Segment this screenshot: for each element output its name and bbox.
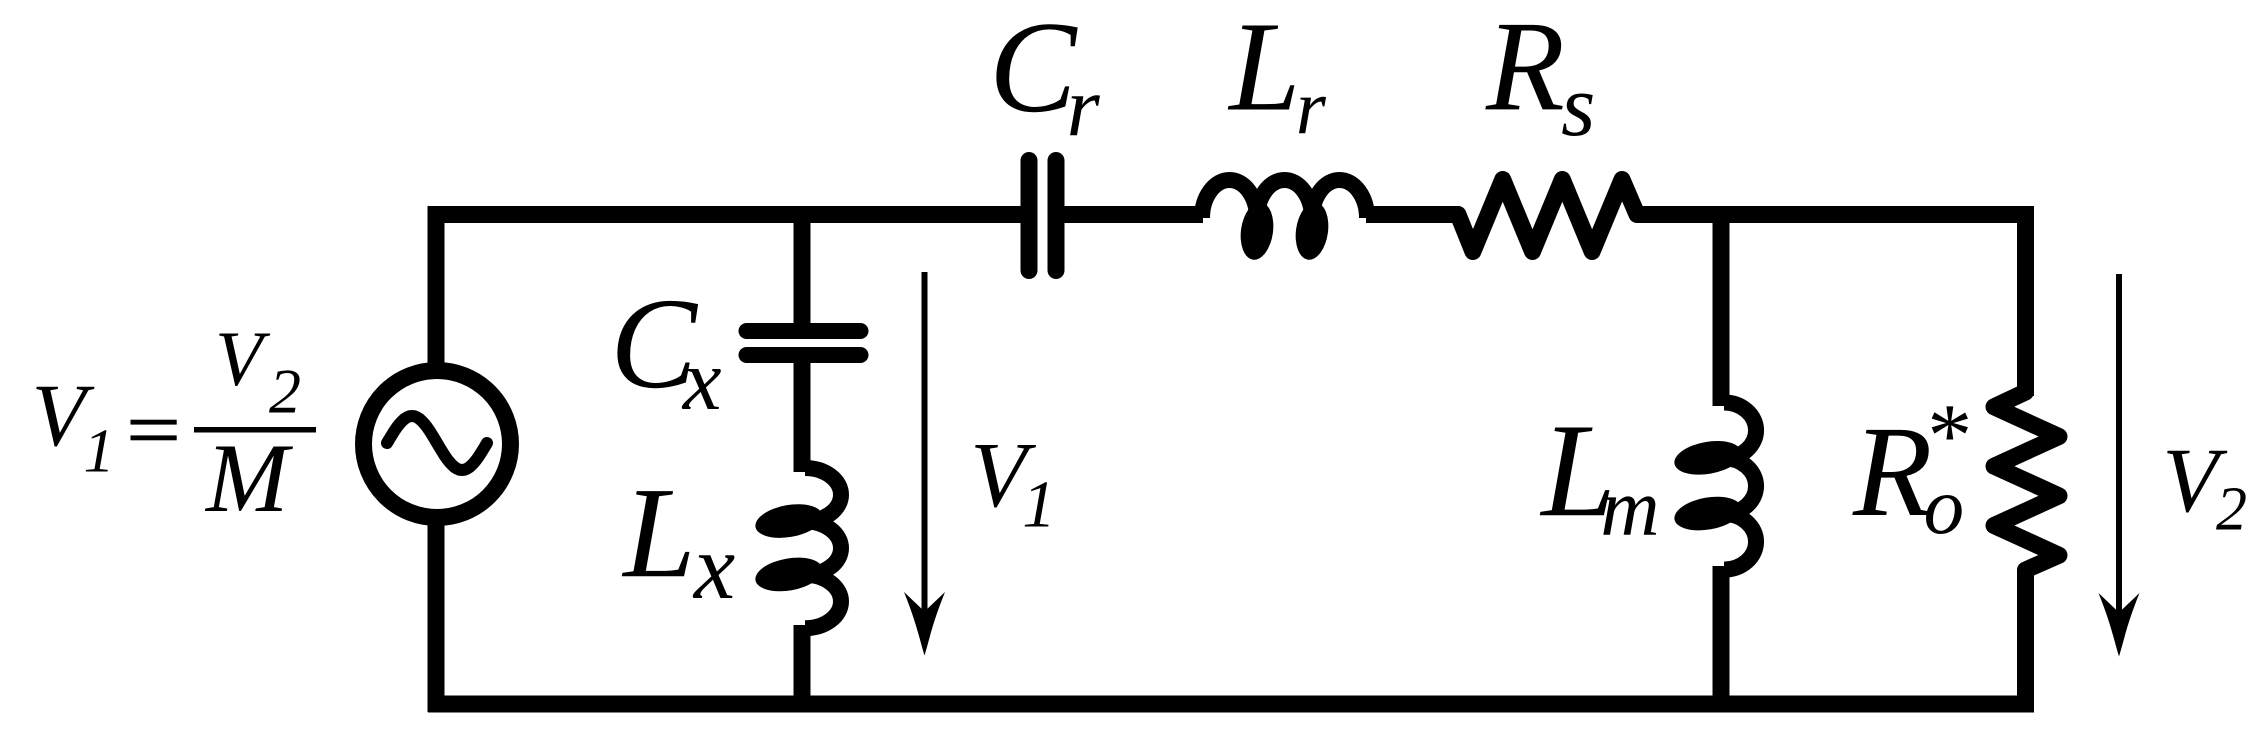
capacitor Cr plate 2 xyxy=(1048,161,1065,271)
capacitor Cx plate 1 xyxy=(747,323,861,339)
label Lm xyxy=(1539,396,1659,553)
label Rs xyxy=(1485,0,1595,155)
label formula V1 = V2/M xyxy=(32,315,316,533)
wire Lm bottom xyxy=(1713,566,1730,704)
arrow V1 head xyxy=(904,592,945,656)
wire right branch bottom xyxy=(2017,570,2034,704)
svg-text:r: r xyxy=(1067,60,1101,154)
arrow V2 line xyxy=(2116,274,2122,617)
svg-text:o: o xyxy=(1924,461,1965,551)
resistor Ro zigzag xyxy=(1994,392,2059,570)
label V1 arrow xyxy=(970,424,1056,542)
svg-text:R: R xyxy=(1485,0,1565,137)
svg-text:2: 2 xyxy=(2216,476,2247,544)
capacitor Cr plate 1 xyxy=(1021,161,1038,271)
inductor Lr coil humps xyxy=(1202,180,1367,218)
arrow V1 line xyxy=(922,272,928,616)
wire Cx to Lx xyxy=(794,355,811,472)
svg-text:1: 1 xyxy=(84,418,115,486)
source sine wave xyxy=(387,416,487,470)
capacitor Cx plate 2 xyxy=(747,347,861,363)
svg-text:R: R xyxy=(1852,400,1932,544)
label Lx xyxy=(621,461,735,619)
inductor Lm loop teardrop 1 xyxy=(1672,436,1745,479)
svg-text:C: C xyxy=(989,0,1078,140)
inductor Lr loop teardrop 2 xyxy=(1292,200,1332,262)
svg-text:r: r xyxy=(1296,64,1327,150)
label Ro* xyxy=(1852,386,1968,551)
svg-text:2: 2 xyxy=(269,356,301,427)
wire top rail between Cr and Lr xyxy=(1064,206,1203,223)
wire top rail between Lr and Rs xyxy=(1366,206,1460,223)
svg-text:1: 1 xyxy=(1022,468,1056,542)
svg-text:M: M xyxy=(204,424,294,533)
inductor Lr loop teardrop 1 xyxy=(1237,200,1277,262)
label V2 arrow xyxy=(2162,429,2247,543)
wire source bottom xyxy=(428,520,445,712)
inductor Lm coil humps xyxy=(1724,403,1756,570)
svg-text:s: s xyxy=(1561,58,1595,155)
svg-text:L: L xyxy=(621,461,695,605)
wire Lx bottom xyxy=(794,625,811,704)
svg-text:m: m xyxy=(1600,462,1659,553)
inductor Lm loop teardrop 2 xyxy=(1672,492,1745,535)
wire Cx branch top xyxy=(794,215,811,333)
svg-text:L: L xyxy=(1227,0,1300,137)
svg-text:V: V xyxy=(215,315,271,402)
svg-text:x: x xyxy=(692,516,735,619)
source circle xyxy=(364,371,511,518)
wire bottom rail xyxy=(428,696,2034,713)
label Cr xyxy=(989,0,1101,154)
wire branch node to Lm xyxy=(1713,215,1730,407)
wire top rail right segment to corner xyxy=(1637,215,2026,397)
inductor Lx loop teardrop 1 xyxy=(753,499,826,542)
inductor Lx coil humps xyxy=(805,468,841,628)
inductor Lx loop teardrop 2 xyxy=(753,553,826,596)
label Cx xyxy=(610,272,721,428)
arrow V2 head xyxy=(2099,593,2140,657)
svg-text:x: x xyxy=(681,331,722,428)
wire top rail left segment xyxy=(436,215,1021,369)
resistor Rs zigzag xyxy=(1458,180,1637,252)
label Lr xyxy=(1227,0,1327,150)
